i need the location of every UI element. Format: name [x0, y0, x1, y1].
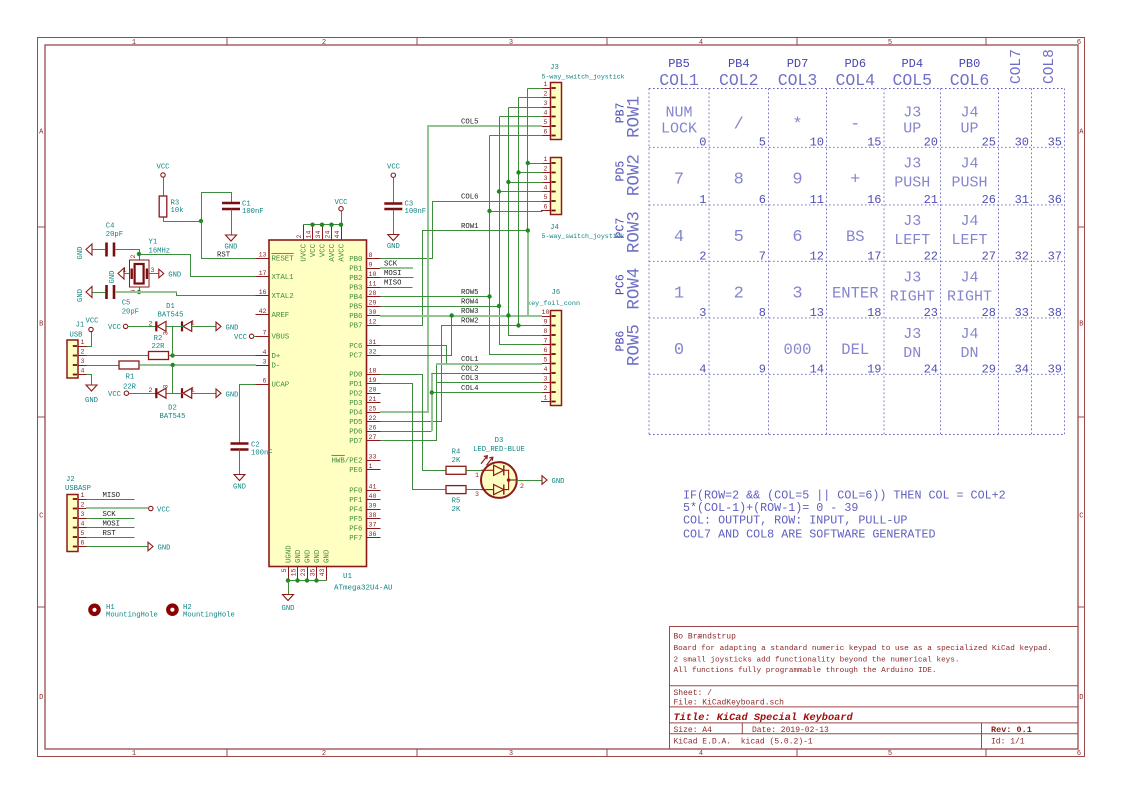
svg-text:PD2: PD2	[349, 391, 362, 399]
svg-text:27: 27	[982, 249, 996, 263]
ground (Y1 pin1)	[109, 268, 124, 283]
svg-text:18: 18	[867, 306, 881, 320]
svg-text:PF1: PF1	[349, 497, 363, 505]
svg-text:20pF: 20pF	[122, 309, 139, 317]
svg-text:5: 5	[544, 194, 548, 201]
svg-text:DN: DN	[960, 345, 978, 362]
svg-text:KiCad E.D.A. kicad (5.0.2)-1: KiCad E.D.A. kicad (5.0.2)-1	[674, 738, 813, 747]
svg-text:ROW3: ROW3	[461, 308, 479, 316]
svg-text:23: 23	[924, 306, 938, 320]
svg-text:1: 1	[544, 156, 548, 163]
svg-text:NUM: NUM	[665, 105, 692, 122]
wire ROW1 vertical to J3.1/J4.1/J6.10	[528, 88, 543, 90]
junction	[314, 578, 318, 582]
resistor R1	[119, 361, 139, 369]
svg-text:PUSH: PUSH	[894, 174, 930, 191]
svg-text:6: 6	[263, 378, 267, 385]
svg-text:ROW4: ROW4	[461, 299, 479, 307]
svg-text:GND: GND	[77, 289, 85, 302]
svg-text:PB5: PB5	[349, 304, 362, 312]
svg-text:6: 6	[544, 347, 548, 354]
U1 pin 26 PD6	[349, 425, 380, 437]
svg-text:12: 12	[810, 249, 824, 263]
svg-text:Size: A4: Size: A4	[674, 726, 713, 735]
svg-text:MountingHole: MountingHole	[106, 612, 158, 620]
power VCC (D2)	[108, 391, 129, 399]
connector J4 body	[541, 156, 562, 214]
svg-text:VBUS: VBUS	[272, 334, 290, 342]
diode D1a BAT545	[156, 321, 166, 331]
ground (U1)	[282, 595, 295, 614]
wire R4 to LED pin1	[467, 470, 482, 472]
U1 pin 20 PD2	[349, 387, 380, 399]
wire J1 pin2 (D+) to R2	[87, 355, 149, 357]
wire J2 pin2 to VCC	[86, 507, 148, 509]
svg-text:PB2: PB2	[349, 275, 362, 283]
svg-text:PD6: PD6	[349, 429, 362, 437]
svg-text:DEL: DEL	[841, 341, 869, 359]
svg-text:Date: 2019-02-13: Date: 2019-02-13	[752, 726, 829, 735]
svg-text:J4: J4	[960, 326, 978, 343]
svg-text:4: 4	[544, 110, 548, 117]
svg-text:20: 20	[924, 135, 938, 149]
svg-text:PD3: PD3	[349, 400, 362, 408]
svg-text:PB0: PB0	[349, 256, 362, 264]
U1 pin 13 RESET	[256, 252, 295, 264]
wire IC top VCC rail	[304, 224, 342, 226]
svg-text:4: 4	[544, 366, 548, 373]
svg-text:RST: RST	[217, 252, 231, 260]
U1 pin 4 D+	[256, 349, 281, 361]
ground (D2)	[216, 389, 238, 400]
svg-text:D-: D-	[272, 363, 281, 371]
svg-text:COL4: COL4	[835, 71, 875, 90]
svg-text:COL5: COL5	[461, 119, 479, 127]
power VCC at U1 top	[341, 211, 343, 225]
svg-text:GND: GND	[158, 545, 171, 553]
svg-text:J3: J3	[550, 64, 559, 72]
ground (J1)	[85, 385, 98, 405]
svg-text:GND: GND	[226, 325, 239, 333]
svg-text:44: 44	[334, 231, 341, 239]
svg-text:22R: 22R	[152, 343, 166, 351]
svg-text:2: 2	[734, 284, 744, 303]
svg-text:GND: GND	[295, 549, 303, 563]
svg-text:4: 4	[699, 362, 706, 376]
junction ROW3 label node	[506, 313, 510, 317]
svg-text:15: 15	[291, 568, 298, 576]
svg-text:7: 7	[544, 338, 548, 345]
wire net COL1: PD7/PC6 to J6.5	[381, 364, 437, 441]
svg-text:PE6: PE6	[349, 467, 362, 475]
U1 pin 31 PC6	[349, 339, 380, 351]
svg-text:41: 41	[369, 484, 377, 491]
svg-text:PD5: PD5	[349, 419, 362, 427]
wire net COL5: PD4 to J3 pin5	[380, 126, 542, 412]
svg-text:29: 29	[982, 362, 996, 376]
svg-text:ATmega32U4-AU: ATmega32U4-AU	[334, 585, 393, 593]
svg-text:USBASP: USBASP	[65, 485, 91, 493]
junction	[295, 578, 299, 582]
svg-text:PB6: PB6	[615, 331, 628, 352]
ground (J2)	[148, 542, 170, 553]
junction ROW5 label node	[487, 294, 491, 298]
wire D1 middle wires	[167, 326, 184, 328]
wire J1 pin3 (D-) to R1	[87, 365, 120, 367]
svg-text:COL4: COL4	[461, 385, 479, 393]
svg-text:PB6: PB6	[349, 313, 362, 321]
svg-text:2: 2	[130, 255, 137, 259]
svg-text:1: 1	[132, 39, 136, 47]
svg-text:HWB/PE2: HWB/PE2	[331, 458, 362, 466]
svg-text:PD4: PD4	[349, 410, 363, 418]
svg-text:38: 38	[1048, 306, 1062, 320]
svg-text:J4: J4	[960, 213, 978, 230]
svg-text:GND: GND	[85, 397, 98, 405]
wire J1 pin4 to GND	[87, 375, 92, 386]
svg-text:Bo Brændstrup: Bo Brændstrup	[674, 633, 737, 642]
svg-text:COL8: COL8	[1042, 49, 1058, 84]
svg-text:COL1: COL1	[461, 356, 479, 364]
power VCC (U1)	[335, 199, 349, 211]
wire net COL4 to J6.2	[432, 392, 543, 394]
junction	[305, 578, 309, 582]
svg-text:1: 1	[475, 472, 479, 479]
svg-text:+: +	[850, 170, 860, 189]
svg-text:Title: KiCad Special Keyboard: Title: KiCad Special Keyboard	[674, 712, 854, 724]
svg-text:31: 31	[1015, 193, 1029, 207]
svg-text:C: C	[39, 513, 43, 521]
svg-text:37: 37	[1048, 249, 1062, 263]
svg-text:PD1: PD1	[349, 381, 363, 389]
junction	[310, 223, 314, 227]
svg-text:3: 3	[475, 491, 479, 498]
svg-text:21: 21	[924, 193, 938, 207]
svg-text:J2: J2	[66, 476, 75, 484]
svg-text:14: 14	[306, 231, 313, 239]
wire J2 pin4 MOSI	[87, 527, 135, 529]
diode D2a BAT545	[156, 388, 166, 398]
svg-text:25: 25	[369, 406, 377, 413]
junction XTAL2 node	[137, 290, 141, 294]
svg-text:Board for adapting a standard: Board for adapting a standard numeric ke…	[674, 645, 1052, 653]
svg-text:39: 39	[369, 503, 377, 510]
diode D2b BAT545	[182, 388, 192, 398]
power VCC (J1)	[86, 318, 100, 332]
svg-text:PB7: PB7	[615, 103, 628, 124]
svg-text:COL2: COL2	[461, 366, 479, 374]
svg-text:J3: J3	[903, 269, 921, 286]
svg-text:COL7: COL7	[1009, 49, 1025, 84]
svg-text:11: 11	[810, 193, 824, 207]
svg-text:VCC: VCC	[108, 324, 122, 332]
svg-text:D2: D2	[168, 405, 177, 413]
wire UCAP to C2	[240, 385, 256, 444]
svg-text:MOSI: MOSI	[103, 521, 121, 529]
svg-text:2: 2	[296, 235, 303, 239]
svg-text:2: 2	[699, 249, 706, 263]
svg-text:UCAP: UCAP	[272, 382, 290, 390]
connector J3 body	[541, 81, 562, 139]
svg-text:J4: J4	[960, 105, 978, 122]
junction ROW3/J4.3	[506, 180, 510, 184]
svg-text:XTAL2: XTAL2	[272, 293, 294, 301]
svg-text:ROW1: ROW1	[461, 223, 479, 231]
svg-text:2: 2	[322, 39, 326, 47]
U1 pin 18 PD0	[349, 368, 380, 380]
svg-text:AREF: AREF	[272, 312, 290, 320]
power VCC (D1)	[108, 324, 128, 332]
svg-text:4: 4	[81, 521, 85, 528]
svg-text:17: 17	[259, 270, 267, 277]
svg-text:5: 5	[544, 357, 548, 364]
svg-text:5: 5	[734, 228, 744, 247]
svg-text:BAT545: BAT545	[160, 413, 186, 421]
U1 pin 28 PB4	[349, 290, 380, 302]
svg-text:8: 8	[369, 252, 373, 259]
U1 pin 7 VBUS	[256, 330, 290, 342]
power VCC (VBUS)	[234, 334, 254, 342]
svg-text:GND: GND	[77, 247, 85, 260]
junction	[320, 223, 324, 227]
crystal Y1	[123, 255, 155, 294]
LED pin2 wire to GND	[517, 480, 543, 482]
svg-text:J4: J4	[550, 224, 559, 232]
svg-text:36: 36	[369, 531, 377, 538]
junction ROW3/PC7	[450, 313, 454, 317]
svg-text:Y1: Y1	[149, 239, 158, 247]
svg-text:8: 8	[544, 328, 548, 335]
U1 pin 38 PF5	[349, 512, 380, 524]
svg-text:DN: DN	[903, 345, 921, 362]
ground (C4)	[77, 244, 92, 259]
svg-text:29: 29	[369, 300, 377, 307]
svg-text:1: 1	[369, 463, 373, 470]
svg-text:7: 7	[674, 170, 684, 189]
svg-text:30: 30	[1015, 135, 1029, 149]
mounting hole H2	[166, 603, 179, 616]
svg-text:PF4: PF4	[349, 507, 363, 515]
svg-text:MOSI: MOSI	[384, 270, 402, 278]
svg-text:J3: J3	[903, 326, 921, 343]
op-amp U1 body (MCU ATmega32U4-AU)	[269, 240, 367, 567]
wire J2 pin3 SCK	[87, 518, 135, 520]
svg-text:D: D	[39, 694, 43, 702]
wire XTAL1 to U1	[140, 255, 256, 277]
svg-text:1: 1	[81, 339, 85, 346]
svg-text:3: 3	[544, 175, 548, 182]
svg-text:1: 1	[544, 81, 548, 88]
svg-text:7: 7	[759, 249, 766, 263]
crystal pin1 to GND	[125, 273, 130, 275]
svg-text:UVCC: UVCC	[301, 243, 309, 261]
svg-text:RESET: RESET	[272, 256, 295, 264]
junction ROW2/J4.2	[516, 170, 520, 174]
svg-text:3: 3	[792, 284, 802, 303]
svg-text:RIGHT: RIGHT	[890, 288, 935, 305]
U1 pin 12 PB7	[349, 319, 380, 331]
svg-text:SCK: SCK	[103, 511, 117, 519]
svg-text:100nF: 100nF	[251, 450, 273, 458]
svg-text:4: 4	[674, 228, 684, 247]
svg-text:1: 1	[191, 320, 195, 327]
svg-text:23: 23	[300, 568, 307, 576]
svg-text:Id: 1/1: Id: 1/1	[991, 738, 1025, 747]
svg-text:PB4: PB4	[349, 294, 363, 302]
svg-text:12: 12	[369, 319, 377, 326]
svg-text:1: 1	[674, 284, 684, 303]
wire VCC to C3	[393, 178, 395, 204]
svg-text:AVCC: AVCC	[339, 243, 347, 261]
svg-text:11: 11	[369, 281, 377, 288]
svg-text:*: *	[792, 116, 802, 135]
resistor R2	[149, 352, 169, 360]
svg-text:22R: 22R	[123, 384, 137, 392]
svg-text:BAT545: BAT545	[158, 312, 184, 320]
svg-text:24: 24	[325, 231, 332, 239]
power VCC (C3)	[387, 164, 401, 178]
svg-text:GND: GND	[168, 272, 181, 280]
junction	[329, 223, 333, 227]
svg-text:4: 4	[699, 750, 703, 758]
U1 pin 6 UCAP	[256, 378, 290, 390]
junction ROW2 label node	[516, 323, 520, 327]
junction ROW4/J4.4	[497, 189, 501, 193]
svg-text:SCK: SCK	[384, 261, 398, 269]
svg-text:16: 16	[867, 193, 881, 207]
U1 pin 29 PB5	[349, 300, 380, 312]
wire net ROW4: PB5 to J3.4/J4.4/J6.7	[381, 306, 500, 308]
svg-text:22: 22	[924, 249, 938, 263]
connector J2 body	[67, 492, 88, 551]
svg-text:3: 3	[81, 358, 85, 365]
svg-text:COL: OUTPUT, ROW: INPUT, PULL-: COL: OUTPUT, ROW: INPUT, PULL-UP	[683, 514, 907, 528]
power VCC (R3)	[157, 164, 171, 178]
U1 pin 43 GND (bottom)	[319, 549, 332, 580]
svg-text:24: 24	[924, 362, 938, 376]
junction D- node	[171, 363, 175, 367]
wire C1 to GND	[231, 210, 233, 236]
resistor R3	[159, 196, 167, 217]
svg-text:34: 34	[1015, 362, 1029, 376]
svg-text:COL3: COL3	[778, 71, 818, 90]
svg-text:5-way_switch_joystick: 5-way_switch_joystick	[542, 74, 625, 81]
svg-text:J4: J4	[960, 269, 978, 286]
wire R3 bottom to node	[164, 218, 202, 222]
wire C4 to crystal pin2	[116, 250, 140, 261]
wire R2 to U1 D+	[169, 355, 256, 357]
svg-text:25: 25	[982, 135, 996, 149]
title block frame	[670, 627, 1079, 750]
svg-text:J1: J1	[76, 322, 85, 330]
svg-text:UGND: UGND	[286, 545, 294, 563]
wire D1 to GND	[192, 326, 217, 328]
svg-text:COL6: COL6	[950, 71, 990, 90]
svg-text:ROW5: ROW5	[461, 289, 479, 297]
svg-text:UP: UP	[960, 121, 978, 138]
connector J1 body	[67, 339, 88, 378]
diode D1b BAT545	[182, 321, 192, 331]
U1 pin 1 PE6	[349, 463, 380, 475]
svg-text:2: 2	[81, 349, 85, 356]
svg-text:6: 6	[1077, 39, 1081, 47]
U1 pin 27 PD7	[349, 434, 380, 446]
svg-text:19: 19	[867, 362, 881, 376]
junction ROW1 label node	[526, 228, 530, 232]
U1 pin 15 GND (bottom)	[291, 549, 304, 580]
svg-text:5: 5	[81, 530, 85, 537]
svg-text:8: 8	[759, 306, 766, 320]
svg-text:0: 0	[674, 341, 684, 360]
svg-text:33: 33	[1015, 306, 1029, 320]
svg-text:26: 26	[982, 193, 996, 207]
svg-text:10: 10	[810, 135, 824, 149]
svg-text:UP: UP	[903, 121, 921, 138]
svg-text:2: 2	[520, 483, 524, 490]
svg-text:RIGHT: RIGHT	[947, 288, 992, 305]
svg-text:2K: 2K	[452, 506, 461, 514]
wire MISO (PB3)	[381, 287, 413, 289]
wire VCC to VBUS	[254, 336, 256, 338]
svg-text:VCC: VCC	[310, 243, 318, 257]
svg-text:GND: GND	[109, 271, 117, 284]
U1 pin 32 PC7	[349, 349, 380, 361]
svg-text:32: 32	[369, 349, 377, 356]
junction ROW4 label node	[497, 304, 501, 308]
U1 pin 44 AVCC (top)	[334, 225, 347, 262]
ground (C1)	[225, 235, 238, 252]
svg-text:Rev: 0.1: Rev: 0.1	[991, 725, 1032, 735]
svg-text:PC7: PC7	[349, 353, 362, 361]
wire J2 pin6 to GND	[87, 546, 149, 548]
junction XTAL1 node	[137, 252, 141, 256]
svg-text:1: 1	[81, 492, 85, 499]
svg-text:4: 4	[544, 185, 548, 192]
svg-text:1: 1	[699, 193, 706, 207]
svg-text:GND: GND	[552, 478, 565, 486]
svg-text:5-way_switch_joystick: 5-way_switch_joystick	[542, 233, 625, 240]
svg-text:D3: D3	[495, 437, 504, 445]
svg-text:21: 21	[369, 396, 377, 403]
wire D1 tap to D+	[172, 327, 174, 356]
wire GND to C4	[93, 249, 106, 251]
junction R3/C1/RST node	[199, 219, 203, 223]
svg-text:35: 35	[1048, 135, 1062, 149]
svg-text:R2: R2	[154, 335, 163, 343]
svg-text:MountingHole: MountingHole	[183, 612, 235, 620]
svg-text:VCC: VCC	[108, 391, 122, 399]
svg-text:36: 36	[1048, 193, 1062, 207]
svg-text:GND: GND	[282, 605, 295, 613]
svg-text:15: 15	[867, 135, 881, 149]
U1 pin 9 PB1	[349, 262, 380, 274]
capacitor C2	[231, 442, 249, 445]
U1 pin 10 PB2	[349, 271, 380, 283]
mounting hole H1	[88, 604, 101, 617]
svg-text:9: 9	[369, 262, 373, 269]
wire PD0 drop to R4	[381, 375, 447, 471]
svg-text:PF6: PF6	[349, 526, 362, 534]
svg-text:PB3: PB3	[349, 285, 362, 293]
svg-text:PB5: PB5	[668, 57, 690, 71]
svg-text:J3: J3	[903, 213, 921, 230]
wire C5/crystal pin4 to XTAL2	[139, 288, 141, 293]
svg-text:VCC: VCC	[157, 507, 171, 515]
svg-text:5: 5	[888, 750, 892, 758]
svg-text:4: 4	[263, 349, 267, 356]
U1 pin 24 AVCC (top)	[325, 225, 338, 262]
junction COL4 tap	[430, 390, 434, 394]
